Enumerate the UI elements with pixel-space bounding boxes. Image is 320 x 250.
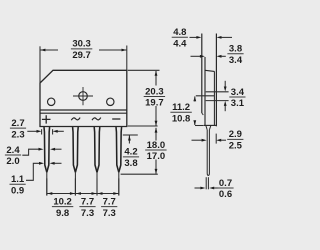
svg-text:9.8: 9.8 [56,208,69,219]
side view: mounting hole bottom line [206,100,229,102]
pin 3 (tapered lead) [94,127,97,172]
front view: left hole [48,98,55,105]
side view: pin lower segment [205,177,207,189]
dimension 20.3/19.7 extension line bottom [128,125,158,127]
dimension 20.3/19.7 dimension line with arrows [155,71,157,86]
svg-text:2.0: 2.0 [6,156,19,167]
svg-text:4.2: 4.2 [124,147,137,158]
dimension 11.2/10.8 dimension line with arrows [193,96,196,101]
side view: front face edge (double line) [213,71,215,125]
dimension 4.2/3.8 arrow [128,136,130,144]
svg-text:2.9: 2.9 [229,129,242,140]
svg-text:30.3: 30.3 [72,39,91,50]
dimension 3.8/3.4 arrows [191,55,201,57]
dimension 20.3/19.7 extension line top [128,69,160,71]
dimension 30.3/29.7 dimension line with arrows [41,49,59,51]
dimension 30.3/29.7 extension line right [126,46,128,71]
side view: plastic back edge [204,57,206,125]
svg-text:3.8: 3.8 [124,158,137,169]
front view: terminal strip line [40,112,127,114]
svg-text:29.7: 29.7 [72,50,91,61]
svg-text:10.2: 10.2 [53,196,72,207]
pin 4 extension line to chain dimension [118,172,120,195]
pin pitch chain dimension line [47,193,119,195]
side view: pin upper segment with U-shaped break [207,130,209,176]
pin 1 extension line to chain dimension [46,172,48,195]
terminal marking plus [42,115,51,123]
pin pitch chain dimension ticks [46,178,48,195]
dimension 0.7/0.6 arrows [195,187,201,189]
svg-text:2.3: 2.3 [11,129,24,140]
terminal marking minus [112,118,120,120]
svg-text:0.9: 0.9 [11,186,24,197]
svg-text:3.8: 3.8 [229,44,242,55]
dimension 4.2/3.8 reference line [123,134,138,136]
dimension 2.4/2.0 leader and arrows [22,149,38,155]
pin tip level extension line [121,173,158,175]
terminal marking tilde 1 [71,118,80,121]
pin 4 (tapered lead) [116,127,119,172]
svg-text:2.5: 2.5 [229,141,243,152]
svg-text:19.7: 19.7 [145,98,164,109]
svg-text:7.3: 7.3 [103,208,116,219]
dimension 18.0/17.0 dimension line with arrows [155,128,157,141]
dimension 1.1/0.9 leader and arrows [26,163,39,180]
dimension 2.7/2.3 arrows [27,130,37,132]
svg-text:4.8: 4.8 [173,27,186,38]
svg-text:10.8: 10.8 [172,113,191,124]
svg-text:18.0: 18.0 [147,140,166,151]
svg-text:1.1: 1.1 [11,174,25,185]
svg-text:7.7: 7.7 [103,196,116,207]
side view: top edge [205,70,214,71]
svg-text:3.4: 3.4 [229,55,243,66]
pin 2 (tapered lead) [73,127,76,172]
side view: mounting hole top line [206,91,229,93]
svg-text:2.7: 2.7 [11,118,24,129]
front view: face parting line [40,109,127,111]
front view: right hole [107,98,114,105]
dimension 4.8/4.4 arrows [190,36,198,38]
terminal marking tilde 2 [92,118,101,121]
side view: heatsink tab bottom taper [202,113,204,115]
pin 1 (tapered lead) [44,127,47,172]
svg-text:3.4: 3.4 [231,87,245,98]
pin 2 extension line to chain dimension [74,172,76,195]
front view: center mounting hole with crosshair [79,92,88,101]
side view: heatsink back edge [201,34,203,114]
dimension 3.4/3.1 arrows [224,81,226,87]
svg-text:17.0: 17.0 [147,151,166,162]
dimension 2.9/2.5 arrows [192,139,203,141]
side view: bottom edge [204,124,217,126]
front view: package body outline with chamfered top-left corner [40,70,127,126]
dimension 30.3/29.7 extension line left [39,46,41,83]
svg-text:7.7: 7.7 [81,196,94,207]
svg-text:4.4: 4.4 [173,38,187,49]
svg-text:11.2: 11.2 [172,102,190,113]
side view: hole center line [196,95,215,97]
side view bottom extension line [195,125,204,127]
dimension 2.9/2.5 tick [215,134,217,144]
svg-text:3.1: 3.1 [231,98,245,109]
svg-text:20.3: 20.3 [145,86,164,97]
pin 3 extension line to chain dimension [96,172,98,195]
dimension 2.7/2.3 ticks at pin 1 root [41,129,43,134]
svg-text:7.3: 7.3 [81,208,94,219]
svg-text:2.4: 2.4 [6,145,20,156]
svg-text:0.7: 0.7 [219,178,232,189]
svg-text:0.6: 0.6 [219,189,232,200]
